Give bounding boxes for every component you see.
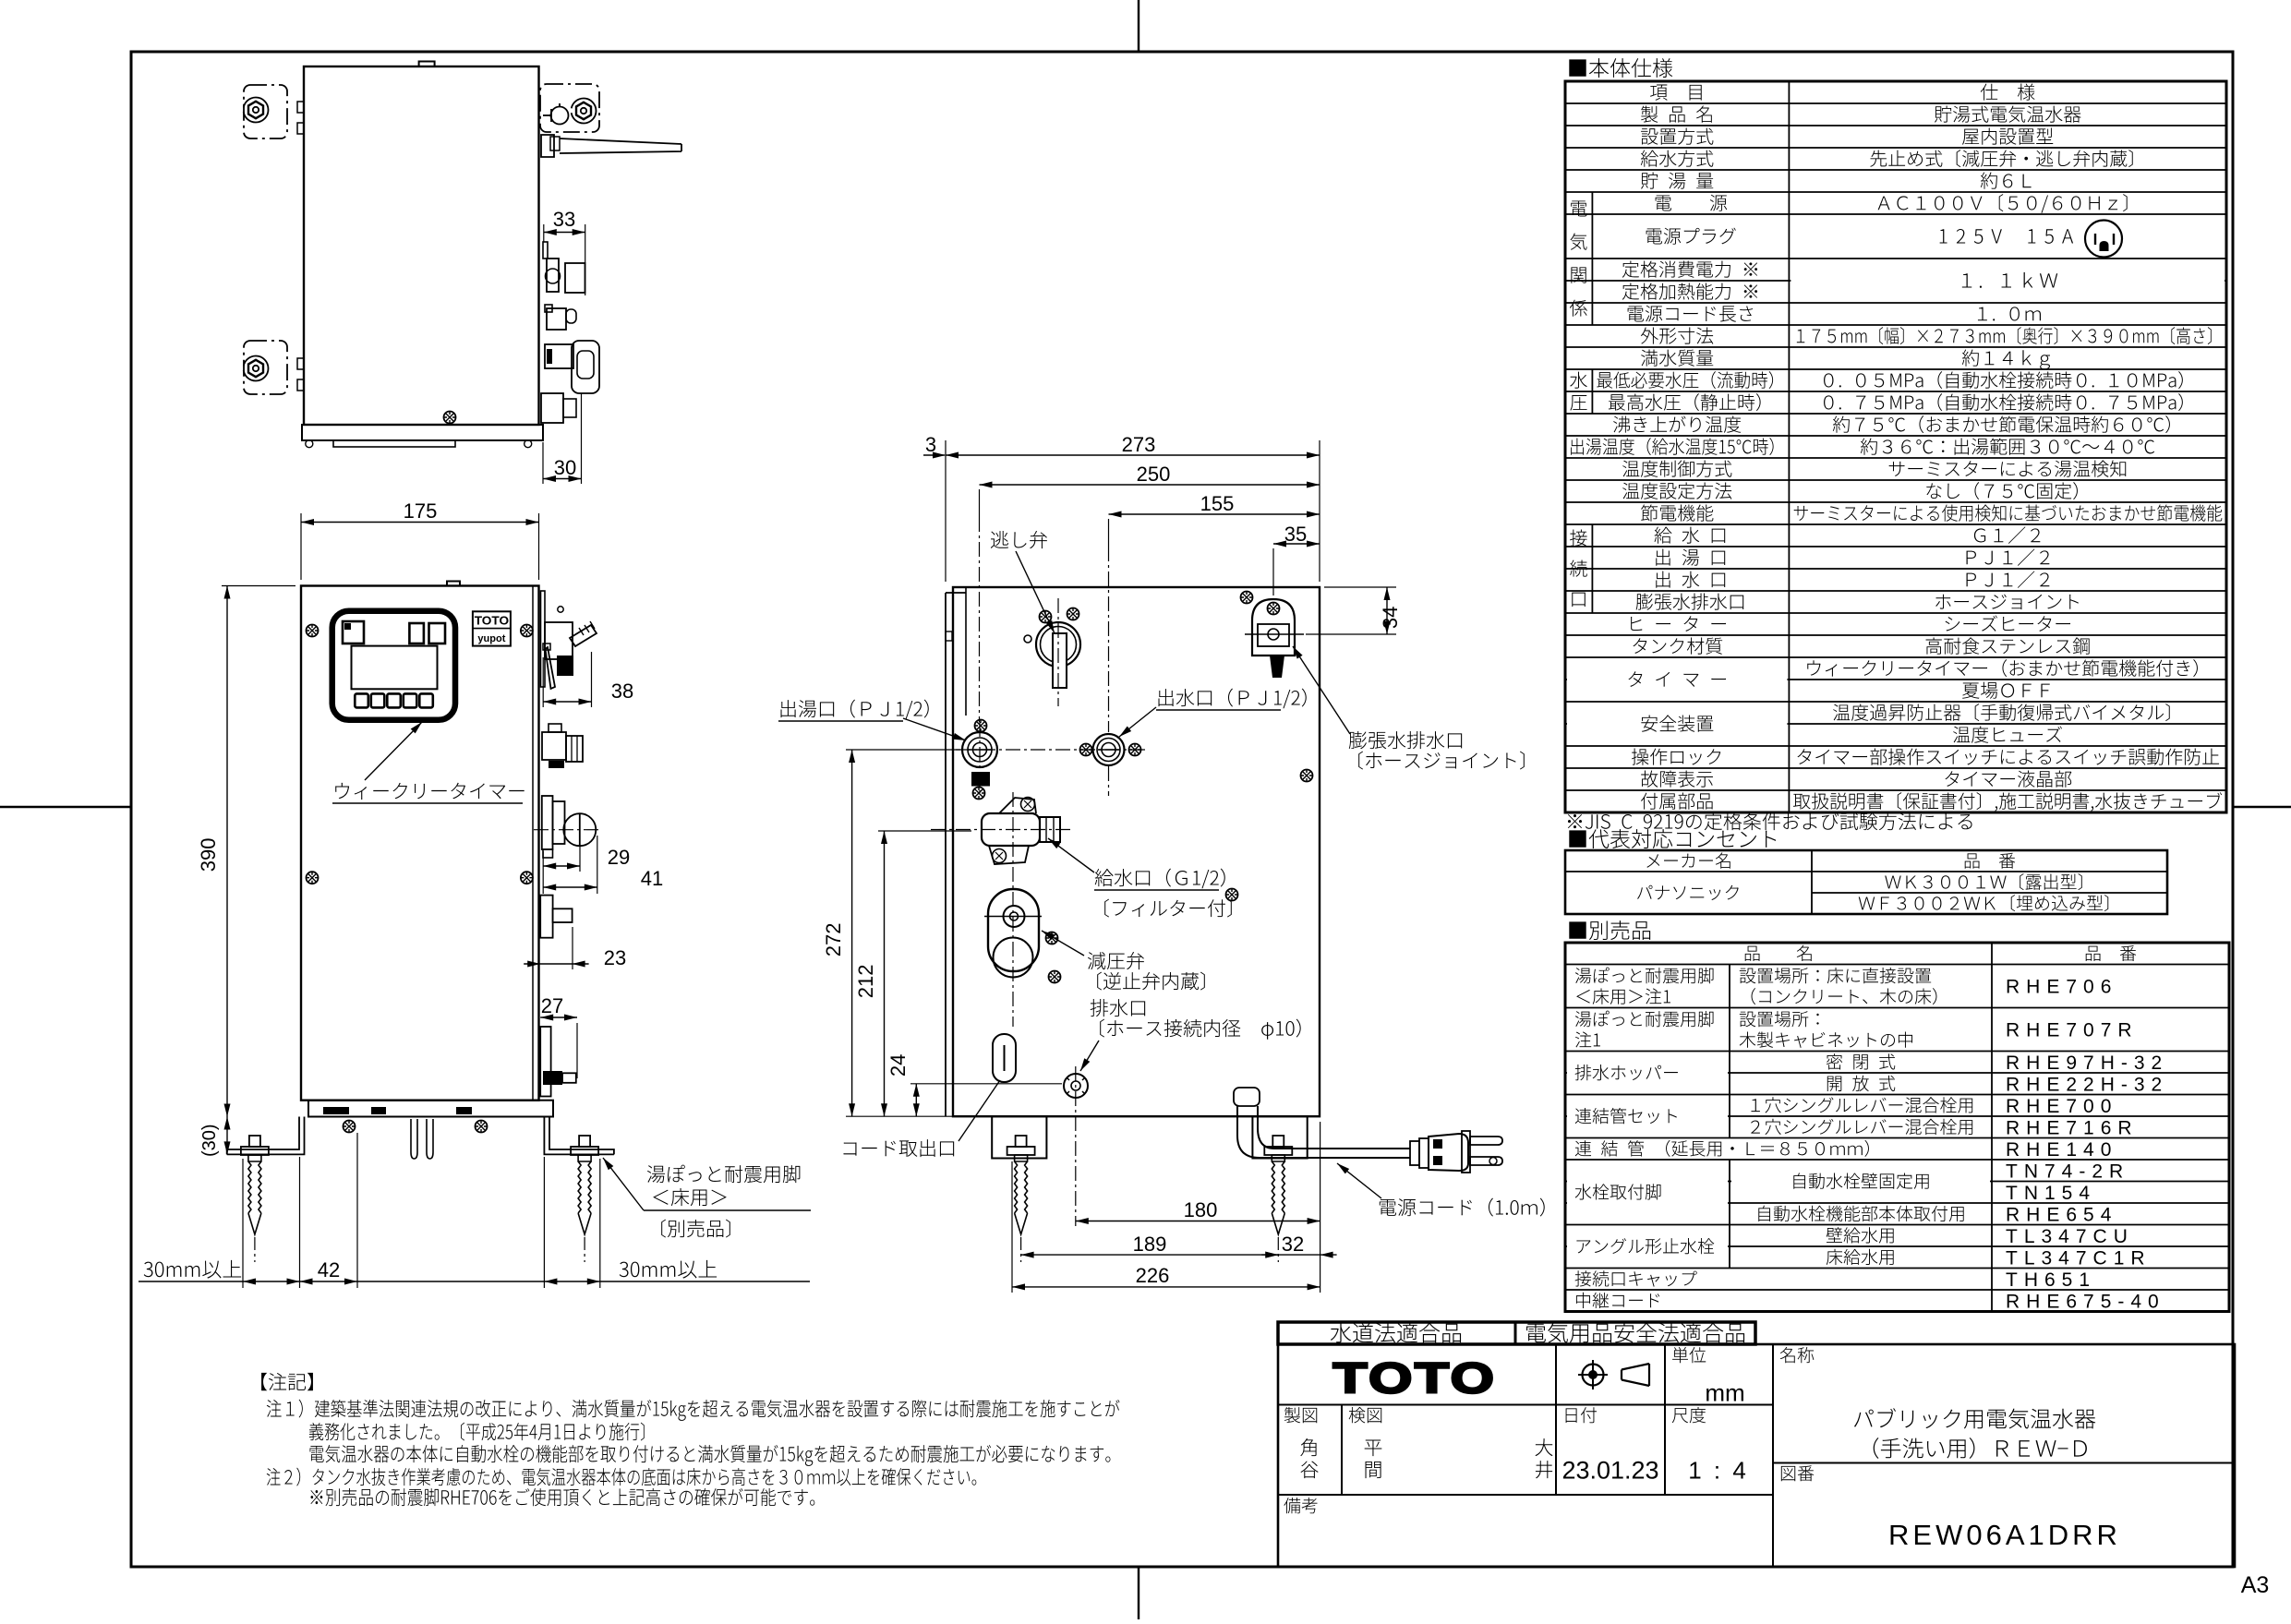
svg-text:TL347C1R: TL347C1R [2006, 1247, 2152, 1269]
svg-text:155: 155 [1200, 492, 1235, 515]
svg-text:1 : 4: 1 : 4 [1688, 1456, 1749, 1484]
svg-text:273: 273 [1122, 433, 1156, 456]
svg-text:30: 30 [554, 456, 576, 479]
svg-text:42: 42 [318, 1258, 340, 1281]
svg-text:226: 226 [1136, 1264, 1170, 1287]
svg-text:TH651: TH651 [2006, 1269, 2096, 1291]
svg-text:38: 38 [611, 680, 633, 703]
svg-text:29: 29 [608, 846, 630, 869]
svg-text:A3: A3 [2241, 1572, 2270, 1598]
svg-text:32: 32 [1282, 1233, 1304, 1256]
svg-text:33: 33 [553, 208, 575, 231]
svg-text:189: 189 [1133, 1233, 1167, 1256]
svg-text:RHE140: RHE140 [2006, 1139, 2117, 1161]
svg-text:180: 180 [1184, 1198, 1218, 1221]
svg-text:RHE654: RHE654 [2006, 1204, 2117, 1225]
svg-text:272: 272 [822, 923, 845, 957]
svg-text:REW06A1DRR: REW06A1DRR [1888, 1519, 2121, 1551]
svg-text:RHE707R: RHE707R [2006, 1020, 2139, 1041]
svg-text:27: 27 [541, 994, 563, 1017]
svg-text:(30): (30) [199, 1124, 220, 1157]
svg-text:TOTO: TOTO [1333, 1355, 1497, 1402]
svg-text:yupot: yupot [477, 633, 505, 644]
svg-text:mm: mm [1705, 1378, 1744, 1406]
svg-text:TOTO: TOTO [475, 614, 509, 628]
svg-text:TL347CU: TL347CU [2006, 1226, 2134, 1247]
svg-text:212: 212 [854, 965, 877, 999]
svg-text:34: 34 [1379, 607, 1402, 629]
svg-text:24: 24 [886, 1054, 910, 1077]
svg-text:RHE97H-32: RHE97H-32 [2006, 1053, 2168, 1074]
svg-text:RHE716R: RHE716R [2006, 1117, 2139, 1138]
svg-text:RHE700: RHE700 [2006, 1096, 2117, 1117]
svg-text:23.01.23: 23.01.23 [1561, 1457, 1658, 1485]
svg-text:23: 23 [604, 946, 626, 969]
svg-text:175: 175 [404, 499, 438, 523]
svg-text:390: 390 [197, 838, 220, 872]
svg-text:TN154: TN154 [2006, 1183, 2096, 1204]
svg-text:RHE706: RHE706 [2006, 977, 2117, 998]
svg-text:RHE22H-32: RHE22H-32 [2006, 1074, 2168, 1095]
svg-text:41: 41 [641, 867, 663, 890]
svg-text:3: 3 [925, 433, 936, 456]
svg-text:TN74-2R: TN74-2R [2006, 1161, 2129, 1182]
svg-text:RHE675-40: RHE675-40 [2006, 1291, 2165, 1312]
svg-text:35: 35 [1284, 523, 1307, 546]
svg-text:250: 250 [1137, 463, 1171, 486]
